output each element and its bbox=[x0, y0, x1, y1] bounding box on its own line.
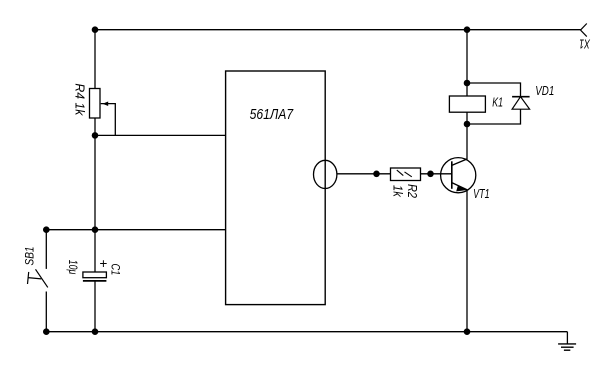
resistor R2 bbox=[391, 168, 421, 198]
IC output inversion bubble bbox=[314, 160, 337, 188]
wire IC input 2 bbox=[46, 229, 225, 231]
svg-text:SB1: SB1 bbox=[23, 247, 37, 266]
svg-text:R2: R2 bbox=[405, 184, 419, 198]
node top-right junction bbox=[464, 26, 471, 33]
svg-text:VT1: VT1 bbox=[473, 187, 490, 201]
node C1 top junction bbox=[92, 226, 99, 233]
capacitor C1 bbox=[66, 256, 123, 281]
wire bottom bus bbox=[46, 331, 567, 333]
node C1 bottom junction bbox=[92, 328, 99, 335]
node SB1 top junction bbox=[43, 226, 50, 233]
wire R4 top lead bbox=[94, 30, 96, 89]
svg-text:10μ: 10μ bbox=[66, 260, 80, 275]
svg-text:C1: C1 bbox=[109, 264, 123, 276]
relay coil K1 bbox=[449, 95, 503, 112]
svg-text:K1: K1 bbox=[492, 95, 503, 109]
diode VD1 bbox=[512, 84, 554, 109]
node SB1 bottom junction bbox=[43, 328, 50, 335]
node R2 left junction bbox=[373, 171, 380, 178]
wire relay bottom lead bbox=[466, 112, 468, 124]
svg-text:561ЛА7: 561ЛА7 bbox=[250, 107, 294, 123]
svg-text:+: + bbox=[99, 256, 107, 271]
wire SB1 top lead bbox=[45, 230, 47, 269]
ground bbox=[558, 332, 576, 351]
node relay top junction bbox=[464, 80, 471, 87]
svg-text:1k: 1k bbox=[391, 185, 405, 197]
wire top bus bbox=[95, 29, 581, 31]
svg-text:X1: X1 bbox=[579, 37, 591, 51]
wire left vertical bbox=[94, 135, 96, 229]
wire relay branch top bbox=[466, 30, 468, 96]
wire diode branch top bbox=[467, 83, 521, 97]
svg-text:VD1: VD1 bbox=[535, 84, 554, 98]
IC U1 561ЛА7 bbox=[226, 71, 326, 305]
wire collector lead bbox=[466, 124, 468, 159]
wire R4 bottom lead bbox=[94, 118, 96, 135]
svg-text:R4 1k: R4 1k bbox=[73, 83, 87, 116]
node emitter bottom junction bbox=[464, 328, 471, 335]
resistor R4 (potentiometer) bbox=[73, 83, 109, 118]
wire emitter lead bbox=[466, 190, 468, 332]
wire R4 wiper bbox=[101, 104, 116, 136]
wire C1 bottom lead bbox=[94, 281, 96, 332]
switch SB1 bbox=[23, 247, 48, 288]
node R2 right junction bbox=[427, 171, 434, 178]
node relay bottom junction bbox=[464, 121, 471, 128]
wire diode branch bottom bbox=[467, 109, 521, 124]
wire SB1 bottom lead bbox=[45, 292, 47, 332]
node top-left junction bbox=[92, 26, 99, 33]
wire IC output to base bbox=[337, 173, 452, 175]
transistor VT1 bbox=[441, 158, 490, 201]
connector X1 bbox=[579, 24, 591, 51]
node junction R4-C1 bbox=[92, 132, 99, 139]
wire IC input 1 bbox=[95, 134, 226, 136]
wire C1 top lead bbox=[94, 230, 96, 272]
